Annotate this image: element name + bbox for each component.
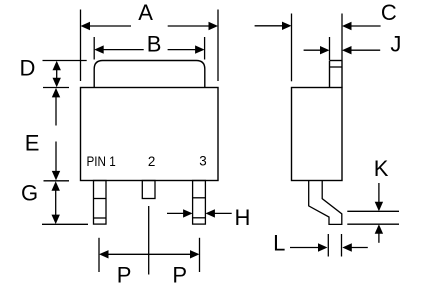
svg-text:C: C bbox=[381, 0, 397, 25]
svg-text:P: P bbox=[172, 263, 187, 284]
package body (side) bbox=[292, 88, 343, 181]
dimension E bbox=[25, 88, 69, 181]
svg-text:PIN 1: PIN 1 bbox=[87, 154, 116, 169]
dimension C bbox=[255, 0, 397, 81]
dimension A bbox=[81, 0, 219, 81]
svg-text:G: G bbox=[21, 180, 38, 205]
pin 2 lead bbox=[142, 181, 155, 199]
mounting tab (rounded top) bbox=[94, 61, 205, 88]
svg-text:3: 3 bbox=[199, 154, 206, 169]
dimension J bbox=[304, 31, 402, 60]
pin 3 lead bbox=[193, 181, 206, 225]
dimension D bbox=[19, 55, 86, 87]
pin 1 plating band lines bbox=[94, 198, 107, 200]
svg-text:2: 2 bbox=[148, 154, 155, 169]
dimension L bbox=[273, 231, 368, 257]
package body bbox=[81, 88, 219, 181]
svg-text:A: A bbox=[138, 0, 153, 25]
tab band line bbox=[330, 66, 343, 68]
svg-text:H: H bbox=[235, 205, 251, 230]
svg-text:E: E bbox=[25, 131, 40, 156]
dimension B bbox=[94, 31, 204, 59]
dimension K bbox=[347, 156, 399, 243]
dimension G bbox=[21, 180, 88, 224]
dimension H bbox=[167, 205, 250, 230]
svg-text:L: L bbox=[273, 231, 285, 256]
bent lead (side) bbox=[309, 181, 342, 225]
tab (side) bbox=[330, 60, 343, 62]
svg-text:K: K bbox=[374, 156, 389, 181]
svg-text:P: P bbox=[117, 263, 132, 284]
svg-text:B: B bbox=[147, 31, 162, 56]
pin 1 lead bbox=[94, 181, 107, 225]
svg-text:J: J bbox=[390, 31, 401, 56]
dimension P (pin pitch) bbox=[99, 206, 200, 284]
svg-text:D: D bbox=[19, 55, 35, 80]
pin 3 plating band lines bbox=[193, 197, 206, 199]
